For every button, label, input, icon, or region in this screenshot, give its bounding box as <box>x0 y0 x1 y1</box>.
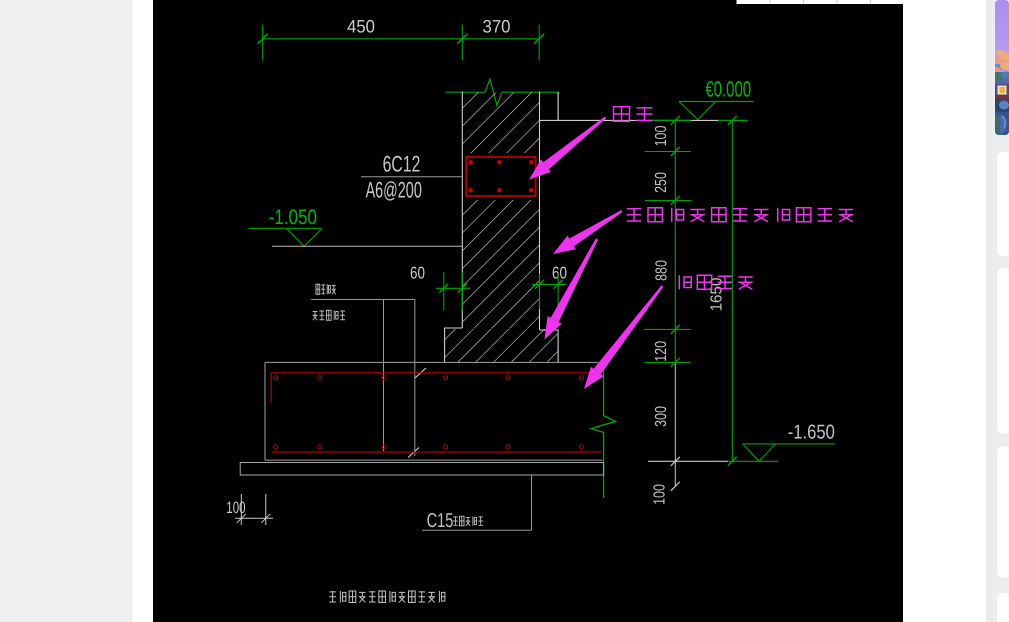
C15 cushion outline <box>240 463 603 476</box>
C15 cushion leader <box>422 475 532 530</box>
leader line 1 to slab <box>383 300 385 452</box>
rebar cut slash bottom <box>408 448 419 458</box>
rebar dots bottom row <box>274 445 584 449</box>
overall dim line 1650 <box>731 120 733 461</box>
annotation arrow 4 to raft slab <box>584 285 664 389</box>
dim labels rotated <box>652 126 671 505</box>
dimension 60 right <box>532 264 567 310</box>
svg-text:€0.000: €0.000 <box>705 77 751 102</box>
label 筏板钢筋 (slab rebar) <box>316 284 336 294</box>
annotation text 用不同厚度的砌体墙定义 (define masonry walls of different thickness) <box>627 208 853 222</box>
label underline <box>311 299 415 301</box>
wall hatch lower <box>445 329 558 362</box>
svg-text:60: 60 <box>552 264 567 283</box>
annotation arrow 3 to lower wall <box>545 238 599 339</box>
rebar label 6C12 / A6@200 <box>361 152 463 203</box>
sidebar card 3 <box>997 446 1009 578</box>
dim tick bars <box>644 116 691 367</box>
label C15 混凝土垫层 <box>427 510 483 532</box>
dim tick at -1.650 level <box>671 457 680 491</box>
svg-text:100: 100 <box>653 126 670 147</box>
annotation arrow 1 to ring beam <box>529 117 606 180</box>
dim bar at 0.000 level <box>653 119 692 121</box>
dimension 450/370 line <box>258 25 545 61</box>
level line at 0.000 <box>540 119 719 121</box>
vertical dimension line (green part) <box>674 120 676 362</box>
svg-text:-1.050: -1.050 <box>269 206 317 229</box>
annotation arrow 2 to wall <box>553 210 623 254</box>
svg-text:A6@200: A6@200 <box>366 177 422 202</box>
wall edges <box>445 92 558 362</box>
svg-text:880: 880 <box>654 260 671 281</box>
caption 上房筏板悬挑边处钢筋做法 <box>329 591 445 603</box>
svg-text:100: 100 <box>226 499 245 517</box>
ring beam section <box>466 157 535 196</box>
svg-text:-1.650: -1.650 <box>788 421 835 443</box>
level line at -1.050 <box>272 245 462 247</box>
annotation text 筏板定义 (raft definition) <box>679 275 752 289</box>
elevation -1.050 <box>249 206 322 246</box>
elevation -1.650 <box>743 421 836 461</box>
left gray panel <box>0 0 133 622</box>
dim bar overall top <box>718 119 748 121</box>
svg-text:120: 120 <box>653 341 670 362</box>
dimension 100 bottom left <box>226 494 273 525</box>
overall dim ticks <box>728 116 737 466</box>
level line at -1.650 <box>648 460 728 462</box>
outer wall face above level <box>557 92 559 120</box>
wall top break line <box>445 79 559 106</box>
svg-text:100: 100 <box>652 484 669 505</box>
sidebar card 2 <box>997 268 1009 434</box>
sidebar card 4 <box>997 593 1009 622</box>
rebar dots top row <box>274 376 584 380</box>
raft slab outline <box>265 362 603 460</box>
sidebar gray background <box>986 0 1009 622</box>
wall hatch upper <box>463 93 539 154</box>
rebar cut slash top <box>415 368 426 378</box>
slab right break edge (green) <box>591 362 616 498</box>
svg-text:60: 60 <box>410 264 425 283</box>
leader line 2 to slab <box>414 300 416 457</box>
label 见平面标注 (see plan note) <box>313 310 345 320</box>
svg-text:370: 370 <box>483 17 511 37</box>
sidebar card 1 <box>997 152 1009 257</box>
sidebar image thumbnail <box>991 0 1009 135</box>
svg-text:6C12: 6C12 <box>383 152 421 177</box>
svg-text:300: 300 <box>653 406 670 427</box>
slab top rebar (red) <box>271 373 602 403</box>
slab bottom rebar (red) <box>271 451 602 453</box>
svg-text:250: 250 <box>653 172 670 193</box>
svg-text:450: 450 <box>347 17 375 37</box>
vertical dimension line (gray part) <box>674 363 676 487</box>
drawing canvas black background <box>153 0 903 622</box>
svg-text:C15: C15 <box>427 510 454 532</box>
dimension 60 left <box>410 264 470 311</box>
green bar at -1.650 level <box>728 460 778 462</box>
table row strip at top right of canvas <box>737 0 904 4</box>
elevation €0.000 <box>679 77 754 120</box>
wall hatch middle <box>463 200 539 329</box>
annotation text 圈梁 (ring beam) <box>614 107 653 121</box>
